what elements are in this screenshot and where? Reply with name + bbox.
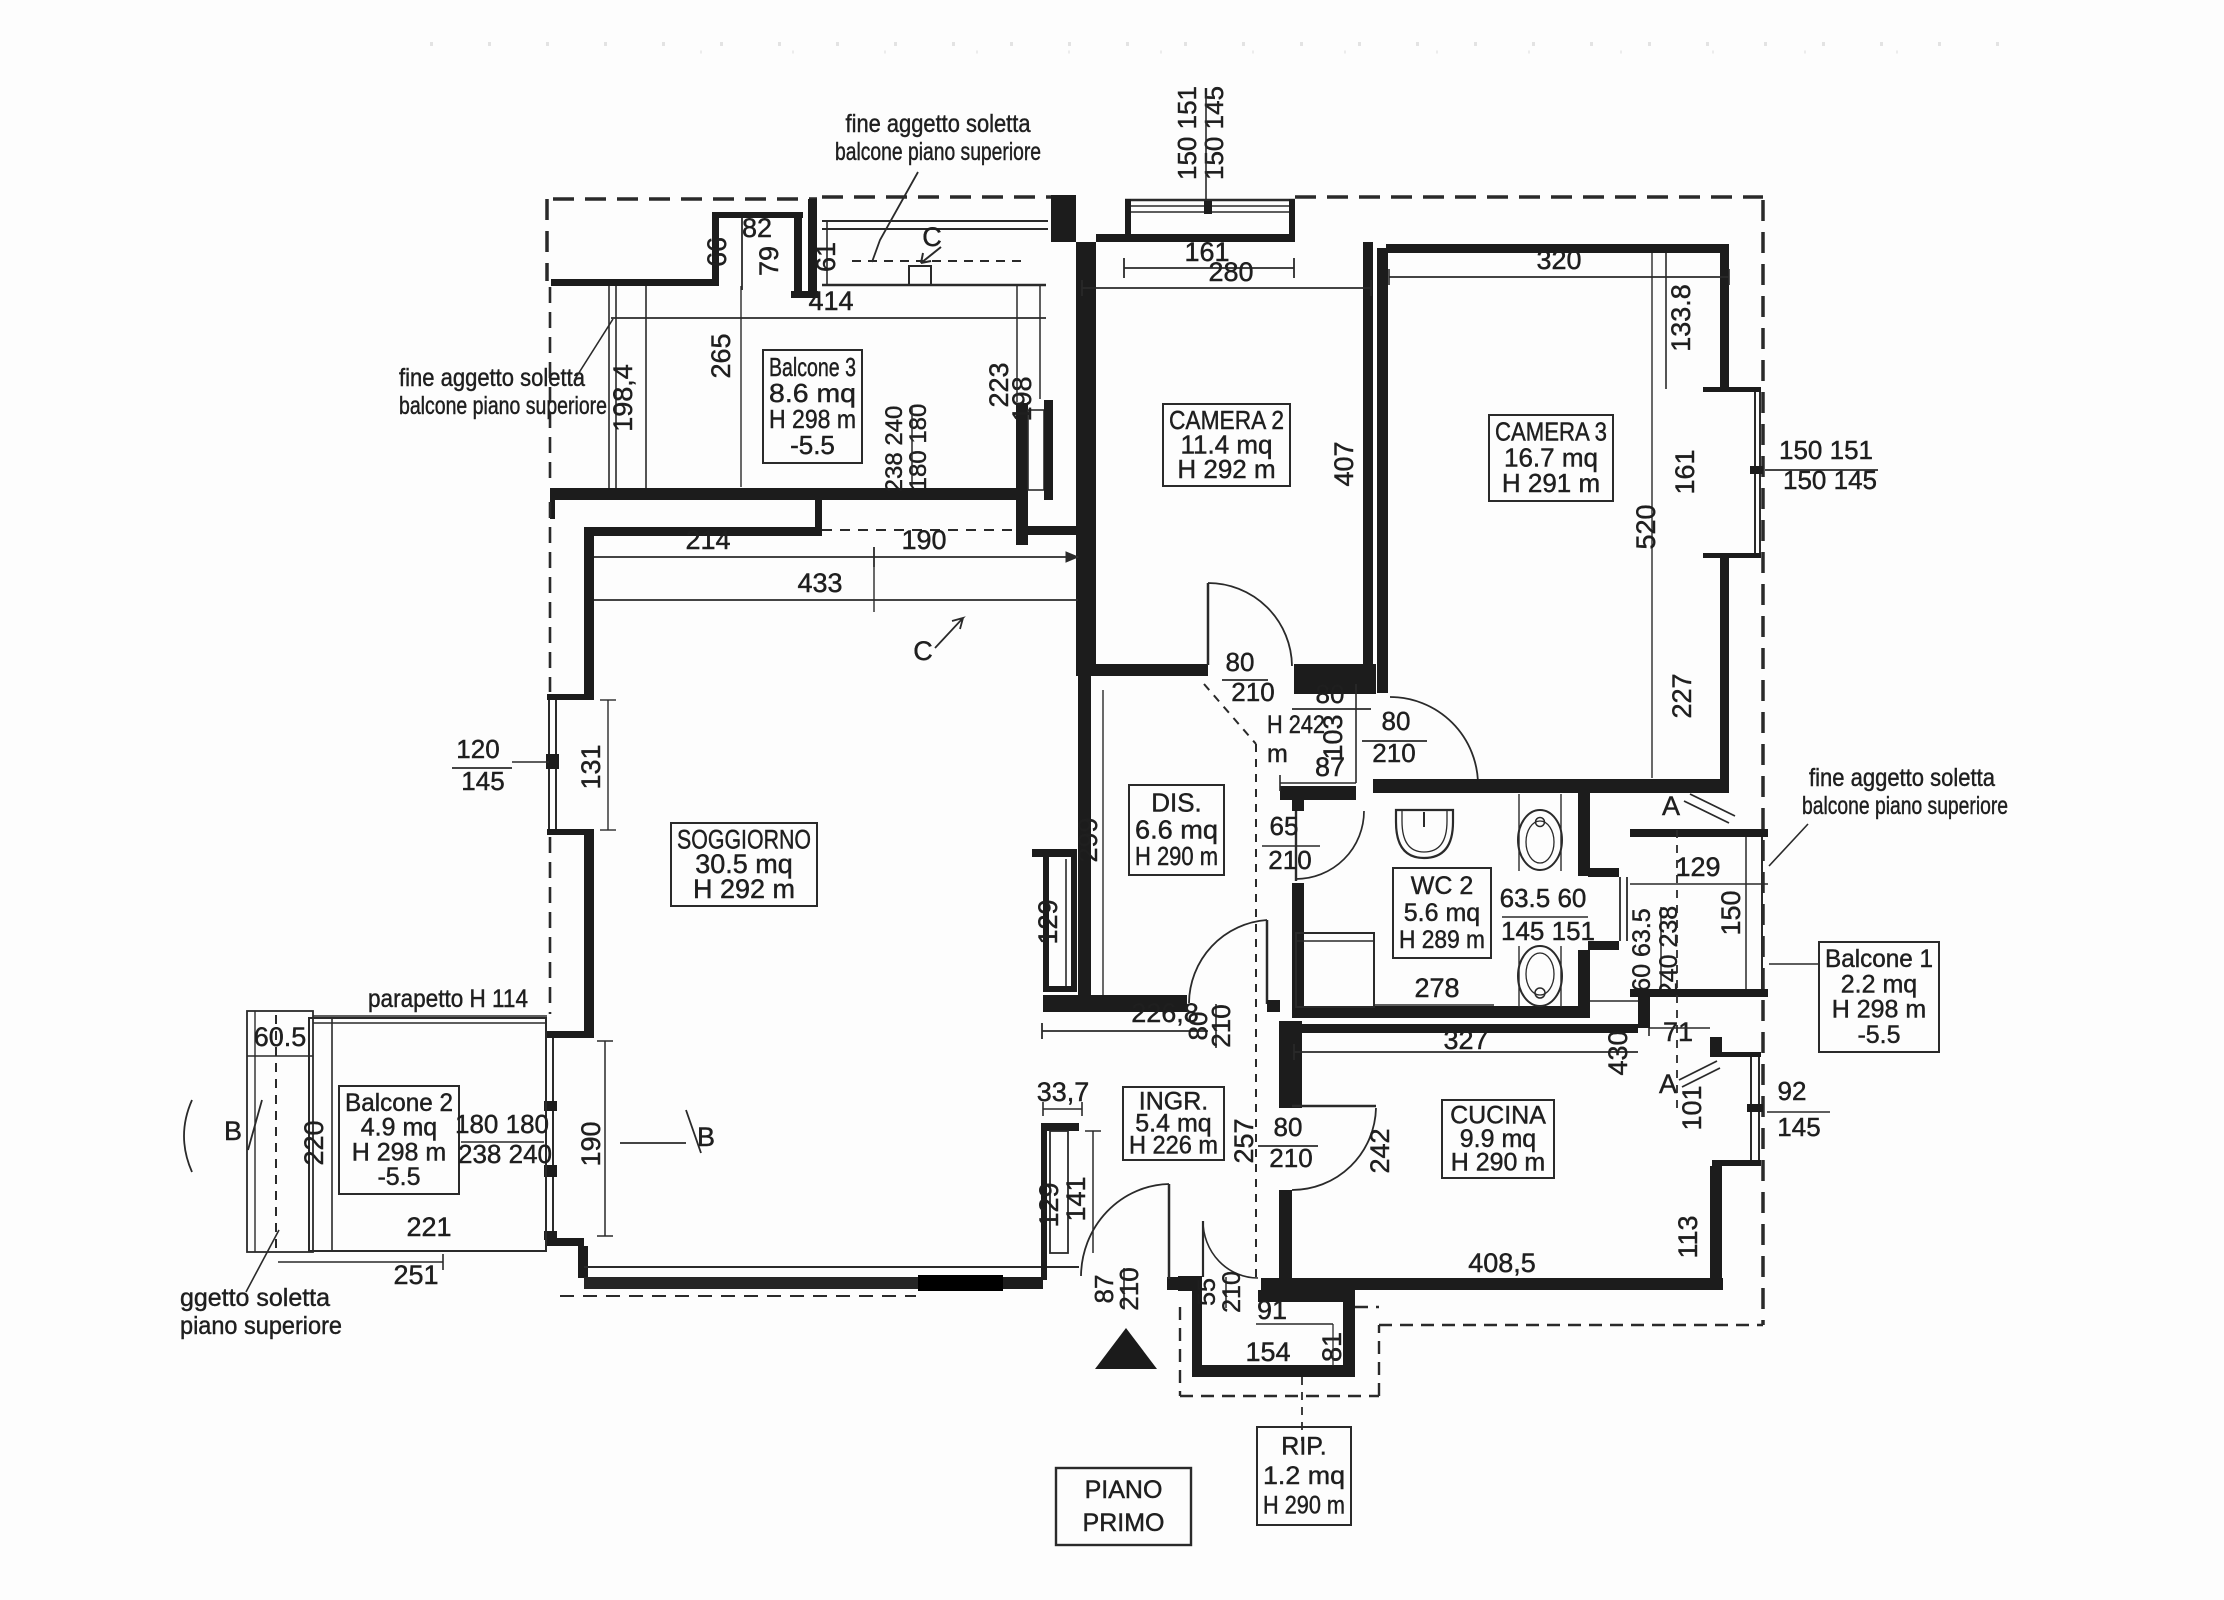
- dashed soggiorno top right: [822, 529, 1028, 531]
- dim top window fraction line: [1205, 94, 1207, 201]
- wall RIP top partial: [1258, 1290, 1355, 1302]
- svg-text:fine aggetto soletta: fine aggetto soletta: [846, 110, 1031, 138]
- svg-text:129: 129: [1034, 1182, 1064, 1227]
- dashed boundary above corridor: [822, 195, 1051, 199]
- svg-text:H 242: H 242: [1267, 711, 1325, 739]
- svg-text:190: 190: [901, 525, 946, 555]
- window camera3 jamb top: [1703, 387, 1761, 392]
- svg-text:145: 145: [461, 766, 504, 796]
- wall bottom band left: [584, 1277, 918, 1289]
- balcone2 aggetto inner line: [254, 1011, 256, 1252]
- window camera2 jamb right: [1289, 199, 1295, 242]
- dim 60.5 line: [247, 1055, 313, 1057]
- wall camera3 right lower: [1720, 558, 1729, 790]
- dim 103 ext: [1355, 684, 1357, 783]
- wall INGR-cucina lower: [1279, 1190, 1292, 1280]
- wall WC2 right upper: [1578, 793, 1590, 876]
- svg-text:-5.5: -5.5: [790, 430, 835, 460]
- wall WC2 niche stub top: [1588, 868, 1619, 877]
- svg-text:80: 80: [1316, 679, 1345, 709]
- wall band jog: [815, 488, 822, 536]
- wall alcove left vertical: [712, 212, 719, 286]
- dim 81 ext: [1332, 1324, 1334, 1366]
- room label soggiorno: [671, 823, 817, 906]
- dim 251 line: [278, 1261, 443, 1263]
- section A top arrow: [1684, 794, 1735, 823]
- door cucina arc: [1292, 1108, 1376, 1190]
- svg-text:210: 210: [1218, 1271, 1246, 1313]
- pocket bottom cap: [1043, 986, 1071, 992]
- window cucina jamb top: [1712, 1052, 1761, 1057]
- svg-text:320: 320: [1536, 245, 1581, 275]
- window soggiorno glass: [548, 700, 550, 829]
- svg-text:H 291 m: H 291 m: [1502, 468, 1600, 498]
- balcone2 aggetto strip: [247, 1011, 313, 1252]
- dim 226,8 line: [1042, 1030, 1208, 1032]
- wall camera3 bottom: [1470, 779, 1729, 793]
- wall RIP right: [1343, 1294, 1355, 1377]
- wall WC2 left lower: [1292, 883, 1304, 1006]
- svg-text:242: 242: [1365, 1128, 1395, 1173]
- pocket left wall: [1043, 857, 1049, 992]
- corridor left closure: [826, 221, 828, 285]
- svg-text:81: 81: [1317, 1332, 1347, 1362]
- dashed H242 boundary vertical: [1255, 744, 1257, 1277]
- label piano primo: [1056, 1468, 1191, 1545]
- svg-text:145 151: 145 151: [1501, 916, 1595, 946]
- svg-text:balcone piano superiore: balcone piano superiore: [1802, 792, 2008, 820]
- section A bottom arrow: [1679, 1061, 1720, 1087]
- dashed boundary top: [1295, 195, 1763, 199]
- wall jamb J2: [1044, 400, 1053, 500]
- balcone3 left lines: [608, 286, 610, 488]
- svg-text:H 226 m: H 226 m: [1129, 1131, 1218, 1159]
- svg-text:WC 2: WC 2: [1411, 872, 1474, 900]
- svg-text:190: 190: [576, 1121, 606, 1166]
- balcone1 right edge: [1761, 837, 1763, 989]
- svg-text:133.8: 133.8: [1666, 284, 1696, 352]
- dim 87 line: [1280, 782, 1356, 784]
- wall RIP bottom: [1192, 1365, 1355, 1377]
- svg-text:79: 79: [754, 246, 784, 276]
- svg-text:RIP.: RIP.: [1281, 1433, 1326, 1461]
- section AA dashed: [1676, 830, 1678, 1110]
- svg-text:4.9 mq: 4.9 mq: [361, 1114, 437, 1142]
- scan noise: [430, 42, 2040, 46]
- section B right tail: [620, 1142, 686, 1144]
- svg-text:H 292 m: H 292 m: [1177, 454, 1275, 484]
- wall pocket connector: [1032, 849, 1077, 857]
- dashed H242 boundary diagonal: [1204, 684, 1256, 744]
- dim 280 line: [1082, 287, 1371, 289]
- fixture toilet: [1518, 946, 1520, 1007]
- wall soggiorno top band A: [550, 488, 1016, 500]
- wall alcove top: [712, 212, 803, 218]
- wall RIP left: [1192, 1290, 1202, 1377]
- fixture sink: [1396, 810, 1453, 858]
- svg-text:131: 131: [576, 744, 606, 789]
- door balcone2 bottom block: [544, 1231, 557, 1240]
- door cucina leaf: [1292, 1105, 1376, 1108]
- window camera3 jamb bottom: [1703, 553, 1761, 558]
- section C dashed line: [852, 260, 1025, 262]
- svg-text:129: 129: [1675, 852, 1720, 882]
- svg-text:80: 80: [1382, 706, 1411, 736]
- leader balcone1: [1769, 963, 1819, 965]
- parapet lines: [313, 1015, 547, 1017]
- wall WC2 top: [1373, 779, 1588, 793]
- svg-text:299: 299: [1073, 817, 1103, 862]
- wall soggiorno SW vertical: [578, 1246, 588, 1278]
- svg-text:210: 210: [1269, 1143, 1312, 1173]
- dashed boundary right vertical: [1761, 200, 1765, 1325]
- niche left wall: [1041, 1123, 1047, 1280]
- dim 161 line: [1124, 267, 1294, 269]
- wall camera2 bottom left: [1076, 664, 1208, 676]
- svg-text:H 292 m: H 292 m: [693, 874, 795, 904]
- svg-text:150 151: 150 151: [1779, 435, 1873, 465]
- svg-text:A: A: [1662, 791, 1680, 821]
- dim 133.8 ext line: [1665, 253, 1667, 389]
- section B left paren: [184, 1100, 192, 1172]
- wall divider camera2-camera3 B: [1377, 248, 1388, 693]
- svg-text:H 290 m: H 290 m: [1135, 841, 1218, 871]
- dim 278 line: [1374, 1004, 1494, 1006]
- svg-text:parapetto H 114: parapetto H 114: [368, 985, 528, 1013]
- wall window jamb SE balcone3: [1016, 403, 1028, 545]
- dashed court bottom: [1180, 1395, 1379, 1397]
- svg-text:Balcone 1: Balcone 1: [1825, 945, 1933, 973]
- wall balcone1 bottom: [1630, 989, 1768, 997]
- svg-text:fine aggetto soletta: fine aggetto soletta: [399, 364, 585, 392]
- window camera2 mullion: [1204, 201, 1212, 214]
- svg-text:180 180: 180 180: [905, 404, 932, 491]
- door DIS-INGR arc: [1189, 920, 1267, 1003]
- window soggiorno jamb bottom: [547, 829, 594, 835]
- svg-text:B: B: [697, 1122, 715, 1152]
- dashed aggetto line left vertical: [545, 199, 549, 281]
- svg-text:92: 92: [1778, 1076, 1807, 1106]
- svg-text:150 145: 150 145: [1783, 465, 1877, 495]
- svg-text:H 290 m: H 290 m: [1263, 1491, 1345, 1519]
- door camera3 arc: [1390, 697, 1478, 785]
- svg-text:ggetto soletta: ggetto soletta: [180, 1284, 330, 1312]
- wall bottom black bar: [918, 1275, 1003, 1291]
- balcone2 inner line: [331, 1018, 333, 1251]
- dim 520 ext line: [1651, 253, 1653, 778]
- svg-text:B: B: [224, 1116, 242, 1146]
- balcone2 outline: [309, 1018, 546, 1251]
- svg-text:198: 198: [1007, 376, 1037, 421]
- door balcone2 french glass: [545, 1038, 547, 1231]
- dashed cucina bottom: [1379, 1324, 1763, 1326]
- svg-text:210: 210: [1268, 845, 1311, 875]
- dashed court left: [1179, 1307, 1181, 1396]
- wall WC2 left upper: [1292, 793, 1304, 811]
- corridor slab line: [822, 284, 1046, 287]
- svg-text:220: 220: [299, 1120, 329, 1165]
- svg-text:H 298 m: H 298 m: [352, 1138, 446, 1166]
- wall cucina right lower: [1710, 1166, 1722, 1280]
- room label RIP: [1257, 1427, 1351, 1525]
- window soggiorno mullion: [546, 754, 559, 769]
- svg-text:66: 66: [702, 237, 732, 267]
- section B left diagonal: [248, 1100, 262, 1150]
- wall cucina bottom: [1261, 1278, 1723, 1290]
- svg-text:210: 210: [1372, 738, 1415, 768]
- svg-text:H 290 m: H 290 m: [1451, 1148, 1545, 1176]
- svg-text:65: 65: [1270, 811, 1299, 841]
- wall balcone2 door cap: [547, 1031, 594, 1038]
- leader fine aggetto top: [872, 172, 918, 262]
- svg-text:balcone piano superiore: balcone piano superiore: [835, 138, 1041, 166]
- dashed court right: [1378, 1325, 1380, 1396]
- balcone1 inner line: [1745, 837, 1747, 989]
- window cucina glass: [1750, 1057, 1752, 1160]
- wall camera2 top piece: [1096, 234, 1125, 242]
- wall WC2 bottom: [1292, 1006, 1588, 1018]
- svg-text:-5.5: -5.5: [1857, 1021, 1900, 1049]
- dim 129 balcone1 line: [1630, 883, 1768, 885]
- dashed aggetto left long: [549, 287, 552, 486]
- svg-text:414: 414: [808, 286, 853, 316]
- room label balcone3: [763, 350, 862, 463]
- dashed below bottom wall: [560, 1295, 916, 1297]
- svg-text:1.2 mq: 1.2 mq: [1263, 1462, 1345, 1490]
- section B right diagonal: [686, 1110, 701, 1153]
- svg-text:fine aggetto soletta: fine aggetto soletta: [1809, 764, 1995, 792]
- svg-text:150: 150: [1716, 890, 1746, 935]
- svg-text:520: 520: [1631, 504, 1661, 549]
- wall DIS left: [1078, 676, 1091, 1004]
- room label cucina: [1442, 1100, 1554, 1178]
- svg-text:180 180: 180 180: [455, 1109, 549, 1139]
- wall camera3 top: [1386, 244, 1729, 253]
- svg-text:63.5 60: 63.5 60: [1500, 883, 1587, 913]
- dim 327 line: [1294, 1051, 1638, 1053]
- svg-text:198,4: 198,4: [608, 364, 638, 432]
- corridor notch: [909, 266, 931, 285]
- svg-text:6.6 mq: 6.6 mq: [1135, 814, 1218, 844]
- dim 320 line: [1389, 276, 1729, 278]
- door WC2 leaf: [1295, 811, 1297, 881]
- svg-text:210: 210: [1206, 1004, 1236, 1047]
- dim 120 145 leader: [512, 761, 549, 763]
- door camera2 arc: [1208, 583, 1292, 666]
- door 55 leaf: [1202, 1221, 1204, 1277]
- svg-text:C: C: [913, 636, 933, 666]
- dim 299 ext: [1102, 690, 1104, 1000]
- wall camera2 window sill: [1125, 234, 1295, 242]
- svg-text:154: 154: [1245, 1337, 1290, 1367]
- svg-text:240 238: 240 238: [1655, 906, 1683, 996]
- wall cucina right top: [1710, 1037, 1722, 1057]
- dim 141 ext: [1092, 1131, 1094, 1253]
- svg-text:407: 407: [1329, 441, 1359, 486]
- room label camera3: [1489, 415, 1613, 501]
- dim 33,7 line: [1043, 1108, 1082, 1110]
- wall INGR-cucina upper: [1279, 1021, 1302, 1108]
- wall WC2 niche stub bottom: [1588, 941, 1619, 950]
- window camera2 jamb left: [1125, 199, 1131, 242]
- svg-text:251: 251: [393, 1260, 438, 1290]
- svg-text:60 63.5: 60 63.5: [1628, 908, 1656, 991]
- svg-text:PIANO: PIANO: [1085, 1476, 1163, 1504]
- room label INGR: [1123, 1087, 1224, 1160]
- svg-text:m: m: [1267, 740, 1288, 768]
- wall bottom thin line: [584, 1266, 1079, 1268]
- leader fine aggetto right: [1769, 824, 1808, 866]
- svg-text:430: 430: [1603, 1030, 1633, 1075]
- door balcone2 mullion 2: [544, 1165, 557, 1177]
- pocket inner line: [1065, 859, 1067, 986]
- wall bottom stub right of door: [1167, 1277, 1192, 1290]
- svg-text:balcone piano superiore: balcone piano superiore: [399, 392, 607, 420]
- corridor parapet line 1: [822, 220, 1048, 222]
- wall camera3 right upper: [1720, 244, 1729, 391]
- svg-text:H 298 m: H 298 m: [1832, 996, 1926, 1024]
- wall soggiorno left lower: [584, 835, 594, 1031]
- door camera3 threshold: [1390, 786, 1470, 788]
- dashed aggetto line top-left: [553, 197, 817, 201]
- wall camera2 left top ext: [1076, 490, 1096, 530]
- niche pocket: [1050, 1131, 1068, 1253]
- leader aggetto soletta: [246, 1230, 279, 1292]
- svg-text:A: A: [1659, 1069, 1677, 1099]
- wall band A left cap: [550, 488, 555, 519]
- svg-text:227: 227: [1667, 673, 1697, 718]
- svg-text:Balcone 2: Balcone 2: [345, 1089, 453, 1117]
- svg-text:238 240: 238 240: [458, 1139, 552, 1169]
- window camera2 glass line 1: [1131, 205, 1290, 207]
- svg-text:408,5: 408,5: [1468, 1248, 1536, 1278]
- window camera2 glass line 2: [1131, 211, 1290, 213]
- svg-text:210: 210: [1114, 1267, 1144, 1310]
- dim fraction balcone2: [461, 1141, 544, 1143]
- room label balcone1: [1819, 942, 1939, 1052]
- wall soggiorno left upper: [584, 527, 594, 696]
- dim 414 line: [611, 317, 1046, 319]
- svg-text:150 145: 150 145: [1199, 86, 1229, 180]
- svg-text:257: 257: [1229, 1118, 1259, 1163]
- door balcone2 mullion 1: [544, 1101, 557, 1111]
- window camera3 glass: [1754, 392, 1756, 553]
- fixture bidet: [1518, 794, 1520, 871]
- window soggiorno jamb top: [547, 694, 594, 700]
- door INGR main leaf: [1168, 1184, 1171, 1279]
- window cucina jamb bottom: [1712, 1160, 1761, 1166]
- door DIS-INGR leaf: [1266, 920, 1269, 1004]
- dim 433 line: [592, 599, 1078, 601]
- wall block left of window: [1051, 195, 1076, 242]
- wall cucina top: [1302, 1024, 1638, 1033]
- dashed RIP label connector: [1301, 1377, 1303, 1441]
- svg-text:H 289 m: H 289 m: [1399, 926, 1485, 954]
- dim 71 line: [1649, 1027, 1710, 1029]
- svg-text:433: 433: [797, 568, 842, 598]
- svg-text:80: 80: [1226, 647, 1255, 677]
- svg-text:120: 120: [456, 734, 499, 764]
- pocket right wall: [1071, 853, 1077, 992]
- svg-text:210: 210: [1231, 677, 1274, 707]
- svg-text:61: 61: [811, 242, 841, 272]
- svg-text:82: 82: [742, 213, 772, 243]
- north arrow: [1095, 1328, 1157, 1369]
- wall stub left of door55: [1178, 1276, 1202, 1291]
- wall divider camera2-camera3 A: [1363, 242, 1373, 666]
- wall balcone3 right-top vertical: [808, 199, 817, 298]
- wall top-left block bottom: [551, 279, 713, 286]
- leader fine aggetto left: [575, 319, 613, 379]
- balcone2 aggetto dash: [275, 1015, 277, 1248]
- svg-text:141: 141: [1061, 1176, 1091, 1221]
- dim 214 190 line: [592, 556, 1078, 558]
- window camera3 mullion: [1750, 466, 1763, 474]
- door INGR main arc: [1081, 1184, 1169, 1276]
- svg-text:-5.5: -5.5: [377, 1163, 420, 1191]
- svg-text:265: 265: [706, 333, 736, 378]
- svg-text:C: C: [922, 222, 942, 252]
- section C arrow: [921, 247, 941, 263]
- niche top cap: [1041, 1123, 1079, 1131]
- corridor parapet line 2: [822, 228, 1048, 230]
- wall camera2 bottom right block: [1294, 664, 1376, 694]
- svg-text:71: 71: [1663, 1017, 1693, 1047]
- svg-text:DIS.: DIS.: [1151, 787, 1202, 817]
- dim 82 extension line: [741, 218, 743, 290]
- svg-text:129: 129: [1033, 899, 1063, 944]
- svg-text:piano superiore: piano superiore: [180, 1312, 342, 1340]
- room label DIS: [1129, 785, 1224, 875]
- svg-text:2.2 mq: 2.2 mq: [1841, 970, 1917, 998]
- wall soggiorno SW corner: [545, 1238, 584, 1246]
- dashed court top seg: [1355, 1306, 1379, 1308]
- wall camera2 left: [1076, 242, 1096, 666]
- wall bottom band mid: [1003, 1277, 1043, 1289]
- door 55 arc: [1203, 1221, 1258, 1278]
- door camera2 leaf: [1207, 583, 1210, 665]
- svg-text:113: 113: [1673, 1215, 1703, 1258]
- svg-text:80: 80: [1274, 1112, 1303, 1142]
- fixture shower: [1296, 933, 1374, 1007]
- dim 190 left ext: [604, 1041, 606, 1236]
- svg-text:PRIMO: PRIMO: [1083, 1509, 1165, 1537]
- wall alcove bottom cap: [791, 291, 818, 298]
- room label balcone2: [339, 1086, 459, 1194]
- svg-text:327: 327: [1443, 1025, 1488, 1055]
- room label camera2: [1163, 404, 1290, 486]
- wall alcove right vertical: [794, 218, 802, 293]
- svg-text:161: 161: [1670, 449, 1700, 494]
- wall DIS bottom stub: [1267, 1000, 1280, 1012]
- wall soggiorno top band B: [590, 527, 817, 536]
- svg-text:280: 280: [1208, 257, 1253, 287]
- wall DIS top-right: [1280, 786, 1356, 800]
- room label WC2: [1393, 868, 1491, 958]
- window cucina mullion: [1747, 1104, 1763, 1112]
- dim 180-238 fraction line: [911, 408, 913, 487]
- svg-text:101: 101: [1677, 1085, 1707, 1130]
- dim 91 line: [1256, 1323, 1333, 1325]
- wall connect to camera2: [1028, 526, 1076, 535]
- dim 265 ext: [740, 286, 742, 487]
- svg-text:60.5: 60.5: [254, 1022, 307, 1052]
- svg-text:87: 87: [1315, 752, 1345, 782]
- corner block balcone1-cucina: [1638, 996, 1650, 1028]
- wall WC2 right lower: [1578, 950, 1590, 1018]
- svg-text:55: 55: [1193, 1278, 1221, 1306]
- window WC2 niche: [1619, 877, 1621, 941]
